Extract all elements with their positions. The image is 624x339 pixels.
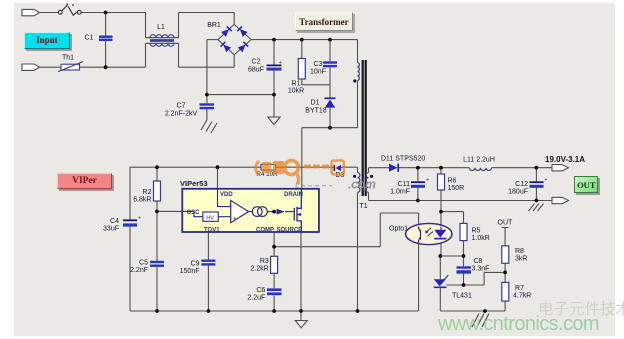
wire C8 — [463, 256, 465, 266]
wire C1 vertical — [105, 13, 107, 36]
wire D1 anode to drain line — [329, 108, 331, 128]
svg-text:DRAIN: DRAIN — [284, 192, 303, 198]
svg-text:.com: .com — [348, 178, 376, 192]
svg-text:R8: R8 — [515, 248, 524, 255]
svg-text:HV: HV — [206, 215, 214, 221]
U1 VDD internal wire — [182, 189, 294, 217]
svg-text:2.2nF-2kV: 2.2nF-2kV — [165, 111, 198, 118]
svg-text:3kR: 3kR — [515, 256, 527, 263]
primary phase dot — [353, 79, 356, 82]
inductor L11 — [470, 168, 492, 171]
optocoupler Opto1 — [406, 223, 452, 244]
button Input — [24, 32, 70, 49]
capacitor C6 — [267, 288, 282, 295]
svg-text:BR1: BR1 — [207, 22, 221, 29]
svg-text:R3: R3 — [260, 258, 269, 265]
U1 error amp triangle — [231, 200, 249, 222]
wire OUT net stem — [504, 228, 506, 246]
connector OUT bottom — [552, 197, 569, 203]
wire TL431 cathode — [439, 256, 441, 279]
resistor R6 — [438, 174, 445, 190]
svg-text:Opto1: Opto1 — [389, 226, 408, 233]
svg-text:C4: C4 — [110, 218, 119, 225]
button Transformer — [295, 12, 353, 31]
capacitor C11 electrolytic — [411, 178, 429, 188]
resistor R1 — [298, 59, 305, 80]
chassis ground secondary — [472, 314, 489, 328]
wire secondary bottom — [368, 192, 370, 200]
wire C7 vertical — [206, 95, 208, 104]
wire R1 tap — [301, 40, 303, 59]
svg-text:www.cntronics.com: www.cntronics.com — [437, 313, 599, 335]
diode D11 — [389, 164, 398, 172]
transformer secondary winding — [366, 173, 368, 193]
svg-text:D11 STPS520: D11 STPS520 — [381, 156, 425, 163]
source ground triangle — [295, 321, 307, 328]
inductor L1 (common mode choke) — [146, 35, 179, 47]
svg-text:TL431: TL431 — [452, 293, 472, 300]
resistor R5 — [460, 223, 467, 240]
svg-text:BYT18: BYT18 — [305, 108, 327, 115]
wire VDD pin — [217, 167, 219, 189]
svg-text:T1: T1 — [360, 203, 368, 210]
primary ground triangle — [268, 117, 280, 125]
wire secondary ground rail — [440, 310, 505, 312]
U1 gate arrow — [277, 209, 285, 215]
wire TOV1 / C9 — [207, 232, 209, 260]
wire drain line horizontal — [302, 127, 358, 129]
svg-text:Th1: Th1 — [62, 55, 74, 62]
svg-text:19.0V-3.1A: 19.0V-3.1A — [545, 155, 585, 164]
svg-text:150R: 150R — [448, 185, 465, 192]
wire COMP to opto loop — [274, 246, 380, 248]
svg-text:C8: C8 — [474, 258, 483, 265]
wire output top rail — [399, 167, 470, 169]
bridge diode top-right — [237, 26, 247, 36]
transformer primary winding — [358, 63, 360, 81]
wire R7 bottom — [504, 301, 506, 311]
connector IN bottom — [22, 64, 40, 70]
wire R2 — [156, 167, 158, 181]
bridge diode bottom-left — [221, 42, 231, 52]
chassis ground below C7 — [201, 120, 217, 133]
capacitor C9 — [201, 260, 215, 266]
thermistor Th1 — [58, 62, 83, 72]
svg-text:3.3nF: 3.3nF — [472, 266, 490, 273]
wire bridge left corner to DC- node — [207, 39, 218, 41]
secondary phase dot — [370, 175, 373, 178]
svg-text:C1: C1 — [85, 34, 94, 41]
capacitor C5 — [150, 261, 164, 267]
svg-text:+: + — [426, 178, 429, 184]
capacitor C8 — [457, 266, 472, 273]
svg-text:+: + — [545, 178, 548, 184]
svg-text:R5: R5 — [472, 228, 481, 235]
U1 MOSFET — [294, 189, 301, 232]
svg-text:1.0mF: 1.0mF — [390, 189, 410, 196]
wire C12 — [535, 168, 537, 182]
wire aux top — [357, 167, 359, 173]
wire C11 — [417, 168, 419, 182]
wire COMP pin — [273, 232, 275, 247]
svg-text:+: + — [138, 216, 141, 222]
VIPer53 IC box U1 — [182, 189, 319, 232]
svg-text:C12: C12 — [515, 181, 528, 188]
wire opto emitter to gnd rail — [418, 243, 420, 312]
watermark orange logo — [256, 161, 344, 185]
resistor R7 — [502, 282, 509, 301]
svg-text:C2: C2 — [252, 59, 261, 66]
wire primary bottom rail — [130, 310, 419, 312]
svg-text:OSC: OSC — [187, 210, 201, 216]
svg-text:R7: R7 — [515, 285, 524, 292]
U1 pin labels — [187, 192, 304, 234]
bridge diode top-left — [221, 26, 231, 36]
wire COMP to R3 — [273, 247, 275, 257]
transformer T1 core — [362, 60, 364, 196]
svg-text:+: + — [233, 216, 236, 222]
button VIPer — [57, 173, 112, 189]
svg-text:2.2uF: 2.2uF — [247, 295, 265, 302]
TL431 U2 — [434, 275, 449, 287]
resistor R8 — [502, 246, 509, 263]
wire OSC — [157, 210, 182, 212]
capacitor C4 electrolytic — [123, 216, 141, 227]
U1 current source circles — [252, 207, 262, 217]
wire R6 — [440, 168, 442, 174]
svg-text:COMP: COMP — [256, 227, 274, 233]
svg-text:OUT: OUT — [498, 220, 514, 227]
svg-text:D1: D1 — [311, 100, 320, 107]
svg-text:10kR: 10kR — [288, 88, 304, 95]
svg-text:33uF: 33uF — [103, 226, 119, 233]
connector IN top — [22, 9, 40, 15]
bridge rectifier BR1 frame — [218, 24, 251, 54]
wire C2 vertical — [273, 40, 275, 65]
wire L1 to bridge top — [179, 12, 235, 14]
wire L1 right verticals — [178, 13, 180, 38]
wire TL431 anode — [439, 288, 441, 311]
wire SOURCE pin — [300, 232, 302, 311]
wire DC- node to C2 bottom node — [207, 94, 274, 96]
svg-text:2.2nF: 2.2nF — [130, 267, 148, 274]
svg-text:10nF: 10nF — [310, 69, 326, 76]
svg-text:180uF: 180uF — [508, 189, 528, 196]
wire primary ground triangle stem — [300, 311, 302, 321]
capacitor C7 — [200, 103, 215, 109]
svg-text:SOURCE: SOURCE — [277, 227, 303, 233]
wire R8 to R7 — [504, 263, 506, 282]
switch S1 — [58, 4, 81, 16]
wire secondary top — [368, 168, 370, 173]
svg-text:TOV1: TOV1 — [204, 227, 220, 233]
svg-text:4.7kR: 4.7kR — [513, 293, 531, 300]
diode D1 — [325, 98, 336, 107]
wire C3 tap — [329, 40, 331, 62]
resistor R2 — [154, 181, 161, 201]
wire primary ground stem — [273, 95, 275, 117]
aux phase dot — [353, 175, 356, 178]
svg-text:C5: C5 — [139, 260, 148, 267]
wire bridge right corner DC+ rail — [251, 39, 357, 41]
wire bottom rail input — [40, 66, 62, 68]
svg-text:C6: C6 — [256, 287, 265, 294]
wire LED cathode down — [440, 240, 442, 257]
diode D3 — [334, 165, 341, 171]
svg-text:L11 2.2uH: L11 2.2uH — [463, 157, 495, 164]
wire R1/C3 to D1 — [302, 84, 330, 86]
capacitor C12 electrolytic — [530, 178, 548, 188]
svg-text:C9: C9 — [191, 261, 200, 268]
wire R5 bottom — [463, 241, 465, 256]
wire switch to L1 — [80, 12, 146, 14]
svg-text:C11: C11 — [398, 181, 410, 188]
svg-text:R2: R2 — [143, 189, 152, 196]
resistor R3 — [271, 256, 278, 273]
wire LED anode node to R5 — [441, 211, 464, 213]
wire aux bottom to gnd rail — [357, 192, 359, 311]
svg-text:L: L — [295, 180, 300, 190]
wire C4 vertical — [129, 167, 131, 219]
wire cathode node horizontal — [440, 255, 463, 257]
svg-text:VIPer53: VIPer53 — [180, 179, 208, 188]
wire primary top feed — [357, 40, 359, 63]
wire VDD rail — [130, 166, 261, 168]
wire drain vertical to DRAIN pin — [301, 128, 303, 189]
wire C5 — [156, 211, 158, 260]
chassis ground below C12 — [529, 204, 544, 212]
wire TL431 ref jog — [447, 284, 485, 286]
transformer aux winding — [358, 173, 360, 193]
svg-text:2.2kR: 2.2kR — [251, 266, 269, 273]
svg-text:6.8kR: 6.8kR — [133, 197, 151, 204]
svg-text:R1: R1 — [292, 81, 301, 88]
svg-text:C7: C7 — [177, 103, 186, 110]
svg-text:1.0kR: 1.0kR — [472, 235, 490, 242]
capacitor C1 — [99, 36, 113, 42]
svg-text:150nF: 150nF — [180, 268, 200, 275]
resistor R4 — [261, 164, 276, 170]
wire L1 left verticals — [145, 13, 147, 38]
bridge diode bottom-right — [238, 42, 248, 52]
capacitor C2 electrolytic — [267, 60, 283, 71]
svg-text:68uF: 68uF — [248, 67, 264, 74]
svg-text:C3: C3 — [314, 61, 323, 68]
connector OUT top — [552, 165, 569, 171]
wire top rail input to switch — [40, 12, 59, 14]
svg-text:R6: R6 — [448, 178, 457, 185]
opto LED — [434, 227, 446, 239]
svg-text:L1: L1 — [157, 24, 165, 31]
svg-text:+: + — [279, 60, 282, 66]
button OUT — [574, 176, 598, 193]
svg-text:VDD: VDD — [220, 192, 233, 198]
opto phototransistor — [419, 227, 421, 243]
wire primary bottom to drain line — [357, 81, 359, 128]
capacitor C3 — [323, 61, 337, 67]
U1 HV block — [203, 212, 218, 221]
